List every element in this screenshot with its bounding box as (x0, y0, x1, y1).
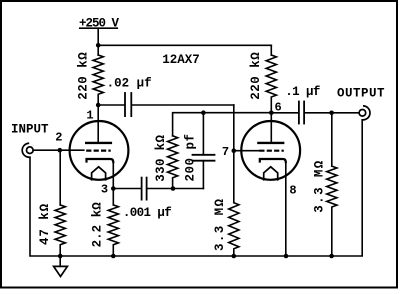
svg-text:3.3 MΩ: 3.3 MΩ (312, 159, 326, 212)
svg-text:.1 µf: .1 µf (285, 85, 320, 99)
svg-text:47 kΩ: 47 kΩ (38, 203, 52, 245)
svg-text:220 kΩ: 220 kΩ (249, 52, 263, 100)
svg-text:220 kΩ: 220 kΩ (76, 52, 90, 100)
svg-text:+250 V: +250 V (79, 17, 120, 31)
svg-text:8: 8 (289, 183, 296, 197)
svg-text:6: 6 (274, 101, 281, 115)
svg-text:2: 2 (55, 130, 62, 144)
svg-text:3: 3 (101, 183, 108, 197)
svg-text:200 pf: 200 pf (183, 133, 197, 181)
svg-text:7: 7 (222, 145, 229, 159)
svg-text:1: 1 (86, 109, 93, 123)
svg-text:.001 µf: .001 µf (123, 206, 171, 220)
svg-text:330 kΩ: 330 kΩ (154, 134, 168, 181)
svg-text:12AX7: 12AX7 (162, 53, 200, 67)
svg-text:INPUT: INPUT (11, 122, 49, 136)
svg-text:.02 µf: .02 µf (107, 77, 152, 91)
svg-text:OUTPUT: OUTPUT (337, 86, 385, 100)
svg-text:2.2 kΩ: 2.2 kΩ (91, 202, 105, 248)
svg-text:3.3 MΩ: 3.3 MΩ (213, 198, 227, 251)
